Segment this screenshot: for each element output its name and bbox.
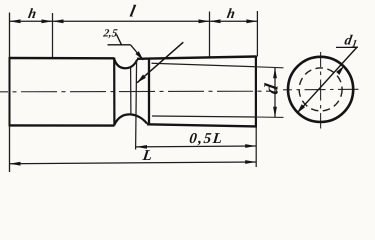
arrow h-right right <box>246 19 257 23</box>
leader 2,5 shelf <box>108 44 131 46</box>
end view outer circle <box>288 57 353 122</box>
right extension line (above shaft) <box>256 11 258 57</box>
arrow d down <box>273 107 277 118</box>
d dimension line <box>274 68 276 118</box>
arrow L left <box>10 162 21 166</box>
arrow h-right left <box>210 19 221 23</box>
arrow L right <box>245 160 256 164</box>
left cylinder bottom edge <box>10 124 115 127</box>
svg-text:2,5: 2,5 <box>102 28 119 40</box>
top dimension line <box>10 20 258 22</box>
arrow d1 upper <box>336 66 344 75</box>
neck diameter diagonal line <box>137 42 183 83</box>
right end face <box>255 56 257 128</box>
arrow l right <box>199 19 210 23</box>
d extension top <box>256 67 284 68</box>
arrow neck diagonal <box>137 75 146 83</box>
extension line h-left/l tick <box>52 13 54 58</box>
d1 label shelf <box>336 46 358 48</box>
leader 2,5 tail slash <box>117 35 122 45</box>
arrow 2,5 <box>135 51 143 60</box>
L dimension line <box>10 162 257 164</box>
svg-text:0,5L: 0,5L <box>188 131 224 147</box>
d1 diagonal diameter line <box>297 47 358 114</box>
arrow 0,5L right <box>245 144 256 148</box>
arrow h-left right <box>42 19 53 23</box>
arrow l left <box>53 19 64 23</box>
groove top arc <box>114 59 137 69</box>
arrow d1 lower <box>297 104 305 113</box>
right section bottom edge <box>147 124 256 126</box>
neck left thin vertical <box>130 68 132 115</box>
end view vertical centerline <box>320 52 322 129</box>
end view horizontal centerline <box>283 88 359 91</box>
right extension line (below shaft) <box>255 127 257 168</box>
left extension line (left end, below shaft) <box>9 126 11 173</box>
end view dashed circle <box>299 68 342 111</box>
left cylinder left end face <box>9 57 11 127</box>
left cylinder top edge <box>10 57 115 60</box>
0,5L dimension line <box>136 145 256 148</box>
inner bore bottom line <box>152 116 256 117</box>
inner bore top line <box>152 63 256 67</box>
extension line 0,5L through neck <box>136 60 137 150</box>
arrow d up <box>273 68 277 79</box>
left cylinder right end face (groove step) <box>113 58 115 126</box>
leader 2,5 line <box>131 45 144 60</box>
groove bottom arc <box>114 114 147 124</box>
d extension bottom <box>256 116 284 118</box>
left extension line (left end, above shaft) <box>9 13 11 58</box>
arrow 0,5L left <box>136 145 147 149</box>
right section top edge <box>137 57 256 59</box>
arrow h-left left <box>10 19 21 23</box>
ferrule left edge vertical <box>148 58 150 125</box>
centerline of shaft <box>0 90 271 93</box>
extension line l/h-right tick <box>209 12 211 57</box>
